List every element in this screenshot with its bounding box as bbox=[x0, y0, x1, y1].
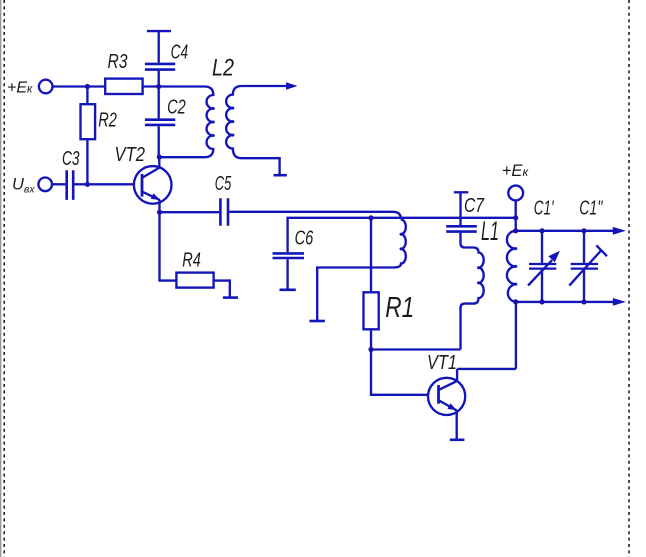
transistor VT1 collector bbox=[439, 381, 457, 390]
svg-text:C4: C4 bbox=[171, 41, 189, 64]
transistor VT1 emitter arrow bbox=[447, 403, 456, 410]
capacitor C5 plates bbox=[220, 198, 228, 226]
capacitor C7 plates bbox=[446, 226, 477, 231]
transistor VT1 base bar bbox=[437, 385, 440, 404]
svg-text:L2: L2 bbox=[212, 55, 234, 82]
svg-text:R2: R2 bbox=[98, 108, 117, 131]
capacitor C2 plates bbox=[145, 120, 175, 125]
wire VT1 collector riser bbox=[457, 302, 516, 381]
ground bar L2 secondary bbox=[274, 174, 287, 177]
svg-text:R3: R3 bbox=[108, 50, 128, 73]
frame dashed border right bbox=[628, 0, 630, 557]
wire R1 node to VT1 base bbox=[371, 350, 439, 395]
svg-text:C7: C7 bbox=[464, 194, 485, 217]
capacitor C7 top bar bbox=[454, 191, 469, 193]
arrow L2 output bbox=[286, 82, 298, 89]
capacitor C1' top lead bbox=[541, 231, 543, 263]
transistor VT1 circle bbox=[428, 378, 465, 415]
wire R2 stem top bbox=[86, 87, 88, 105]
svg-text:R4: R4 bbox=[182, 249, 201, 272]
capacitor C4 bottom lead bbox=[158, 71, 160, 87]
terminal Uvx bbox=[38, 178, 52, 192]
resistor R3 bbox=[105, 79, 142, 94]
transistor VT2 collector bbox=[143, 157, 160, 178]
wire C5 to L1 (main) bbox=[229, 212, 401, 220]
svg-text:+Eк: +Eк bbox=[7, 80, 33, 97]
capacitor C2 top lead bbox=[158, 87, 160, 119]
wire bottom rail bbox=[516, 301, 614, 303]
node C1'' bottom bbox=[581, 299, 586, 304]
wire VT2 emitter to C5 bbox=[160, 211, 220, 213]
capacitor C1' bottom lead bbox=[541, 270, 543, 302]
inductor L2 secondary winding bbox=[226, 86, 286, 175]
wire R3 to node bbox=[143, 85, 160, 87]
node R3/C4/C2 bbox=[156, 84, 161, 89]
wire R4 to ground bbox=[214, 281, 230, 297]
ground bar R4 bbox=[223, 296, 238, 299]
arrow bottom rail bbox=[613, 298, 626, 306]
knots L2 primary bbox=[212, 107, 215, 110]
node C6/R1 bbox=[368, 215, 373, 220]
capacitor C1' plates bbox=[529, 264, 556, 269]
terminal +Ek left bbox=[39, 80, 53, 94]
knots L1 winding a bbox=[400, 233, 403, 236]
transistor VT1 emitter bbox=[439, 401, 457, 440]
svg-text:C3: C3 bbox=[62, 147, 80, 170]
node C3/R2/base bbox=[85, 182, 90, 187]
capacitor C2 bottom lead bbox=[158, 126, 160, 157]
wire +Ek right lead bbox=[515, 200, 517, 230]
transistor VT2 emitter bbox=[143, 192, 160, 212]
node VT2 collector bbox=[157, 154, 162, 159]
capacitor C4 plates bbox=[145, 64, 175, 70]
svg-text:C1': C1' bbox=[534, 197, 555, 220]
node VT2 emitter bbox=[157, 210, 162, 215]
frame gray edge left bbox=[0, 0, 2, 557]
capacitor C1'' top lead bbox=[583, 231, 585, 263]
wire C3 to node bbox=[75, 183, 88, 185]
transistor VT2 emitter arrow bbox=[151, 193, 160, 200]
svg-text:C6: C6 bbox=[295, 227, 314, 250]
wire Uvx to C3 bbox=[52, 183, 65, 185]
node C1'' top bbox=[581, 228, 586, 233]
inductor L1 winding a bbox=[317, 220, 406, 321]
arrow top rail bbox=[613, 227, 626, 235]
wire R1 to node bbox=[370, 329, 372, 349]
svg-text:Uвх: Uвх bbox=[12, 176, 35, 196]
node C1' bottom bbox=[539, 299, 544, 304]
capacitor C7 top lead bbox=[459, 192, 461, 225]
resistor R1 bbox=[364, 292, 379, 329]
svg-text:+Eк: +Eк bbox=[502, 162, 530, 180]
wire C6 rail bbox=[288, 218, 516, 252]
inductor L1 winding c bbox=[507, 231, 516, 302]
svg-text:C5: C5 bbox=[215, 172, 232, 195]
wire VT2 emitter down to R4 bbox=[160, 212, 177, 280]
wire top rail bbox=[516, 230, 614, 232]
resistor R4 bbox=[176, 273, 213, 288]
wire R1 node to L1 winding b bbox=[371, 348, 461, 350]
transistor VT2 base bar bbox=[141, 174, 144, 197]
node L1c top bbox=[513, 228, 518, 233]
node R1 bottom bbox=[368, 347, 373, 352]
knots L1 winding c bbox=[514, 247, 517, 250]
transistor VT2 circle bbox=[134, 166, 172, 204]
ground bar C6 bbox=[280, 288, 296, 291]
wire R2 stem bottom bbox=[86, 139, 88, 184]
resistor R2 bbox=[81, 104, 96, 139]
ground bar VT1 emitter bbox=[450, 438, 465, 441]
terminal +Ek right bbox=[508, 186, 523, 201]
inductor L1 winding b bbox=[461, 233, 484, 350]
wire node to R1 bbox=[370, 218, 372, 292]
capacitor C4 top lead bbox=[158, 31, 160, 62]
capacitor C3 plates bbox=[67, 170, 74, 200]
svg-text:L1: L1 bbox=[481, 216, 499, 246]
capacitor C1'' trimmer line bbox=[569, 250, 601, 285]
inductor L2 primary winding bbox=[159, 87, 214, 158]
ground bar L1 winding a bbox=[309, 320, 325, 323]
svg-text:R1: R1 bbox=[385, 292, 414, 324]
capacitor C6 bottom lead bbox=[286, 259, 288, 289]
capacitor C6 plates bbox=[273, 253, 305, 258]
capacitor C1'' bottom lead bbox=[583, 270, 585, 302]
node L1c bottom bbox=[513, 299, 518, 304]
node +Ek rail upper bbox=[513, 215, 518, 220]
frame dashed border left bbox=[3, 0, 5, 557]
node C1' top bbox=[539, 228, 544, 233]
svg-text:VT2: VT2 bbox=[115, 144, 146, 166]
svg-text:C2: C2 bbox=[167, 96, 186, 119]
capacitor C1' arrow line bbox=[528, 260, 552, 285]
knots L1 winding b bbox=[477, 266, 480, 269]
svg-text:VT1: VT1 bbox=[427, 352, 457, 374]
capacitor C4 top bar bbox=[147, 30, 171, 32]
node +Ek/R2 bbox=[85, 84, 90, 89]
wire node to VT2 base bbox=[87, 183, 142, 185]
capacitor C1'' trimmer bar bbox=[596, 245, 607, 256]
wire +Ek to R3 bbox=[53, 85, 105, 87]
capacitor C1'' plates bbox=[571, 264, 598, 269]
knots L2 secondary bbox=[231, 107, 234, 110]
capacitor C1' arrow head bbox=[548, 251, 560, 262]
svg-text:C1'': C1'' bbox=[579, 197, 603, 220]
